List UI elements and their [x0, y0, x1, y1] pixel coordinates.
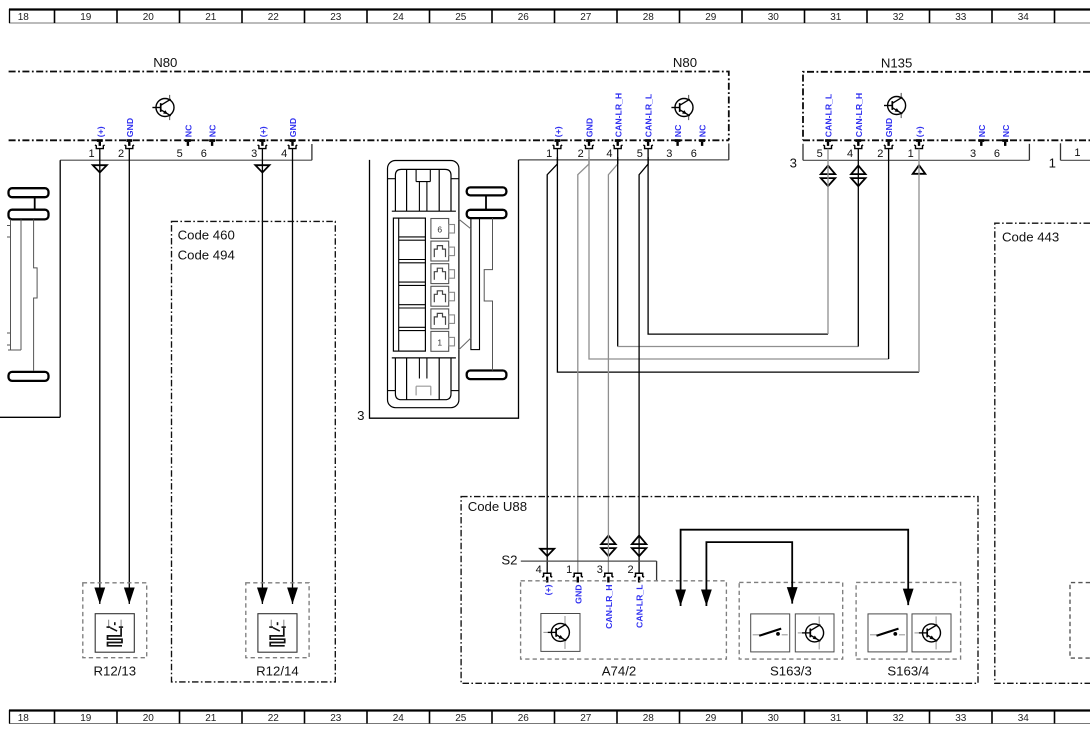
S2 pin 1 (GND) [566, 564, 583, 604]
svg-text:27: 27 [580, 12, 592, 23]
cut-off component box in Code 443 [1070, 583, 1090, 659]
svg-text:CAN-LR_H: CAN-LR_H [854, 93, 864, 137]
svg-text:5: 5 [177, 148, 183, 160]
separation arrow on S2 (+) wire [540, 549, 554, 556]
connector 3 mating side pins [459, 187, 507, 379]
pin 4 (GND) [281, 118, 298, 160]
svg-text:1: 1 [908, 148, 914, 160]
svg-text:24: 24 [393, 713, 405, 724]
pin 6 (NC) [994, 124, 1011, 160]
Code 443 box [995, 223, 1090, 683]
svg-text:22: 22 [268, 12, 280, 23]
svg-text:34: 34 [1018, 713, 1030, 724]
pin 4 (CAN-LR_H) [847, 93, 864, 160]
svg-text:26: 26 [518, 713, 530, 724]
svg-text:26: 26 [518, 12, 530, 23]
transistor symbol in N135 [884, 93, 906, 118]
Code 460 / Code 494 box [172, 221, 336, 682]
svg-text:3: 3 [666, 148, 672, 160]
label 3 (connector) [357, 408, 364, 423]
connector bracket (left N80 connector) [60, 144, 312, 160]
heater element R12/13 [83, 583, 147, 658]
svg-text:3: 3 [790, 156, 797, 171]
label N80 (right) [673, 55, 697, 70]
svg-text:20: 20 [143, 12, 155, 23]
svg-text:6: 6 [994, 148, 1000, 160]
svg-text:S163/4: S163/4 [887, 664, 929, 679]
pin 1 ((+)) [88, 126, 105, 160]
pin 6 (NC) [201, 124, 218, 160]
S2 connector bracket [521, 561, 657, 581]
bottom coordinate ruler [9, 710, 1090, 724]
label Code 494 [178, 247, 235, 262]
svg-text:NC: NC [977, 124, 987, 137]
svg-text:21: 21 [205, 713, 217, 724]
S2 pin 4 ((+)) [536, 564, 553, 595]
svg-text:GND: GND [288, 118, 298, 137]
wire CAN-LR_L N80 pin5 to S2 pin2 [639, 149, 648, 574]
label N135 [881, 55, 913, 70]
svg-text:S163/3: S163/3 [770, 664, 812, 679]
wire A74/2 to S163/4 [675, 530, 913, 606]
svg-text:18: 18 [18, 713, 30, 724]
wire N80 pin2 to R12/13 [124, 149, 135, 604]
svg-text:R12/14: R12/14 [256, 664, 299, 679]
svg-text:33: 33 [955, 12, 967, 23]
svg-text:23: 23 [330, 713, 342, 724]
svg-text:32: 32 [893, 713, 905, 724]
svg-text:NC: NC [698, 124, 708, 137]
pin 3 ((+)) [251, 126, 268, 160]
label Code 460 [178, 227, 235, 242]
svg-text:GND: GND [884, 118, 894, 137]
label R12/14 [256, 664, 299, 679]
label R12/13 [94, 664, 137, 679]
svg-text:19: 19 [80, 713, 92, 724]
pin 3 (NC) [970, 124, 987, 160]
svg-text:S2: S2 [501, 553, 517, 568]
svg-text:1: 1 [88, 148, 94, 160]
connector separation arrow on wire pin3 [255, 165, 269, 172]
svg-text:2: 2 [627, 564, 633, 576]
pin 6 (NC) [691, 124, 708, 160]
svg-text:6: 6 [691, 148, 697, 160]
svg-text:NC: NC [1001, 124, 1011, 137]
svg-text:Code U88: Code U88 [468, 499, 527, 514]
svg-text:N80: N80 [153, 55, 177, 70]
wire A74/2 to S163/3 [701, 542, 798, 606]
svg-text:(+): (+) [543, 584, 553, 595]
control unit N135 box [803, 72, 1090, 141]
pin 3 (NC) [666, 124, 683, 160]
svg-text:3: 3 [970, 148, 976, 160]
connector 3 illustration [388, 161, 459, 408]
pin 2 (GND) [118, 118, 135, 160]
connector bracket 1 of N135 [1061, 143, 1090, 160]
left connector illustration (cut off) [7, 188, 49, 381]
svg-text:3: 3 [357, 408, 364, 423]
svg-text:30: 30 [768, 713, 780, 724]
svg-text:27: 27 [580, 713, 592, 724]
svg-text:CAN-LR_H: CAN-LR_H [604, 585, 614, 629]
connector bracket 3 of N135 [803, 144, 1029, 161]
svg-text:19: 19 [80, 12, 92, 23]
label S163/4 [887, 664, 929, 679]
svg-text:2: 2 [578, 148, 584, 160]
transistor symbol in N80 (left) [152, 95, 174, 120]
wire CAN-LR_H N80 pin4 to N135 pin4 [618, 149, 859, 347]
svg-text:NC: NC [184, 124, 194, 137]
connector bracket (right N80 connector) [519, 144, 729, 160]
wire N80 pin3 to R12/14 [257, 149, 268, 604]
svg-text:1: 1 [566, 564, 572, 576]
label S2 [501, 553, 517, 568]
switch S163/3 [739, 582, 843, 659]
svg-text:31: 31 [830, 12, 842, 23]
svg-text:5: 5 [637, 148, 643, 160]
pin 1 ((+)) [908, 126, 925, 160]
pin 2 (GND) [877, 118, 894, 160]
svg-text:3: 3 [597, 564, 603, 576]
component A74/2 [521, 581, 727, 659]
label Code U88 [468, 499, 527, 514]
svg-text:22: 22 [268, 713, 280, 724]
label 1 (N135 connector) [1049, 155, 1056, 170]
svg-text:20: 20 [143, 713, 155, 724]
svg-text:32: 32 [893, 12, 905, 23]
switch S163/4 [856, 582, 961, 659]
label S163/3 [770, 664, 812, 679]
label Code 443 [1002, 230, 1059, 245]
svg-text:23: 23 [330, 12, 342, 23]
svg-text:3: 3 [251, 148, 257, 160]
svg-text:CAN-LR_L: CAN-LR_L [635, 584, 645, 628]
svg-text:Code 460: Code 460 [178, 227, 235, 242]
svg-text:(+): (+) [95, 126, 105, 137]
svg-text:29: 29 [705, 713, 717, 724]
svg-text:6: 6 [201, 148, 207, 160]
wire CAN-LR_L N80 pin5 to N135 pin5 [648, 149, 828, 335]
svg-text:29: 29 [705, 12, 717, 23]
connector separation arrow on wire pin1 [93, 165, 107, 172]
svg-text:(+): (+) [915, 126, 925, 137]
svg-text:GND: GND [125, 118, 135, 137]
svg-text:NC: NC [208, 124, 218, 137]
pin 5 (CAN-LR_L) [637, 93, 654, 160]
wire N80 pin1 to R12/13 [94, 149, 105, 604]
wire N80 pin4 to R12/14 [287, 149, 298, 604]
label A74/2 [602, 664, 636, 679]
svg-text:25: 25 [455, 12, 467, 23]
twisted pair marks on S2 CAN wires [601, 536, 646, 557]
Code U88 box [461, 497, 978, 684]
svg-text:34: 34 [1018, 12, 1030, 23]
svg-text:R12/13: R12/13 [94, 664, 137, 679]
svg-text:4: 4 [847, 148, 853, 160]
svg-text:1: 1 [1074, 147, 1080, 159]
top coordinate ruler [9, 9, 1090, 23]
svg-text:Code 443: Code 443 [1002, 230, 1059, 245]
svg-text:GND: GND [573, 585, 583, 604]
pin 1 ((+)) [546, 126, 563, 160]
svg-text:A74/2: A74/2 [602, 664, 636, 679]
svg-text:(+): (+) [553, 126, 563, 137]
svg-text:28: 28 [643, 12, 655, 23]
svg-text:28: 28 [643, 713, 655, 724]
pin 1 of N135 connector 1 (cut off) [1074, 147, 1080, 159]
svg-text:CAN-LR_H: CAN-LR_H [613, 93, 623, 137]
svg-text:1: 1 [1049, 155, 1056, 170]
svg-text:(+): (+) [258, 126, 268, 137]
svg-text:CAN-LR_L: CAN-LR_L [824, 93, 834, 137]
pin 5 (CAN-LR_L) [817, 93, 834, 160]
svg-text:2: 2 [118, 148, 124, 160]
svg-text:1: 1 [437, 338, 442, 348]
svg-text:6: 6 [437, 225, 442, 235]
svg-text:5: 5 [817, 148, 823, 160]
control unit N80 box [9, 72, 729, 141]
left component box (cut off) [0, 160, 60, 417]
svg-text:18: 18 [18, 12, 30, 23]
svg-text:4: 4 [536, 564, 542, 576]
pin 5 (NC) [177, 124, 194, 160]
svg-text:N80: N80 [673, 55, 697, 70]
wire (+) N80 pin1 to N135 pin1 [557, 149, 919, 373]
wire CAN-LR_H N80 pin4 to S2 pin3 [608, 149, 617, 574]
svg-text:Code 494: Code 494 [178, 247, 235, 262]
svg-text:NC: NC [673, 124, 683, 137]
svg-text:2: 2 [877, 148, 883, 160]
svg-text:21: 21 [205, 12, 217, 23]
wire GND N80 pin2 to S2 pin1 [578, 149, 589, 574]
S2 pin 2 (CAN-LR_L) [627, 564, 644, 628]
wire (+) N80 pin1 to S2 pin4 [547, 149, 557, 574]
svg-text:CAN-LR_L: CAN-LR_L [644, 93, 654, 137]
svg-text:4: 4 [281, 148, 287, 160]
wire GND N80 pin2 to N135 pin2 [589, 149, 889, 359]
S2 pin 3 (CAN-LR_H) [597, 564, 614, 629]
heater element R12/14 [246, 583, 309, 658]
transistor symbol in N80 (right) [671, 95, 693, 120]
svg-text:24: 24 [393, 12, 405, 23]
svg-text:GND: GND [585, 118, 595, 137]
svg-text:1: 1 [546, 148, 552, 160]
label N80 (left) [153, 55, 177, 70]
svg-text:30: 30 [768, 12, 780, 23]
connector 3 component box [370, 160, 519, 418]
svg-text:33: 33 [955, 713, 967, 724]
label 3 (N135 connector) [790, 156, 797, 171]
svg-text:31: 31 [830, 713, 842, 724]
pin 4 (CAN-LR_H) [606, 93, 623, 160]
svg-text:4: 4 [606, 148, 612, 160]
separation arrow on N135 (+) wire [913, 165, 926, 174]
twisted pair marks on N135 CAN wires [821, 166, 866, 187]
pin 2 (GND) [578, 118, 595, 160]
svg-text:N135: N135 [881, 55, 913, 70]
svg-text:25: 25 [455, 713, 467, 724]
